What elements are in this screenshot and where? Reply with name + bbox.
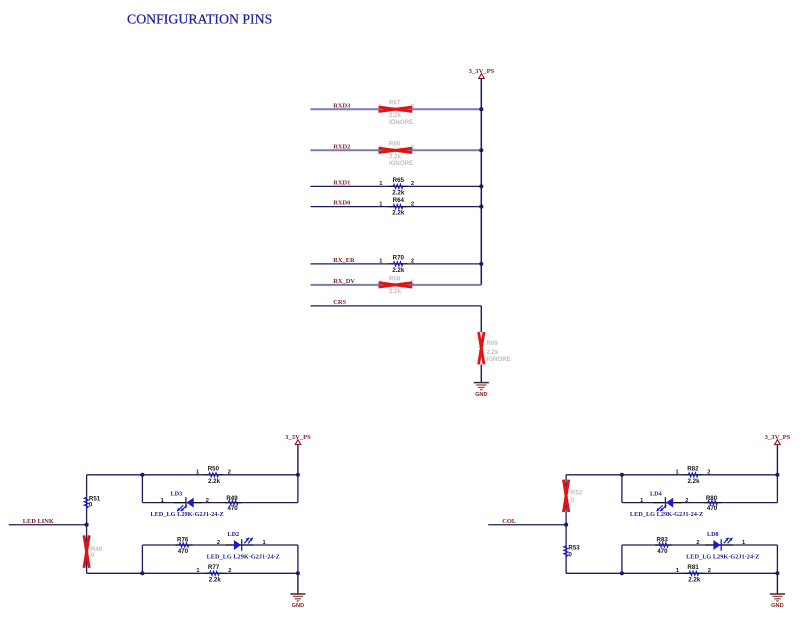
junction top rail / power (COL) [775, 473, 779, 477]
svg-text:1: 1 [379, 201, 382, 207]
wire bottom rail (COL) [566, 572, 777, 574]
svg-text:1: 1 [196, 469, 199, 475]
junction top rail / branch (COL) [620, 473, 624, 477]
R67 DNP X mark [379, 107, 413, 112]
wire net RX_DV [311, 284, 482, 286]
wire branch vertical lower-right (COL) [776, 545, 778, 573]
svg-text:1: 1 [640, 498, 643, 504]
wire power stem (LED LINK) [297, 445, 299, 475]
junction bottom rail / ground (COL) [775, 571, 779, 575]
svg-text:R76: R76 [177, 537, 189, 544]
svg-text:CRS: CRS [333, 299, 346, 306]
junction top rail / branch (LED LINK) [140, 473, 144, 477]
svg-text:R66: R66 [389, 141, 401, 148]
wire power stem (COL) [776, 445, 778, 475]
wire bottom rail (LED LINK) [87, 572, 298, 574]
svg-text:R80: R80 [706, 495, 718, 502]
svg-text:2.2k: 2.2k [487, 349, 500, 356]
svg-text:GND: GND [475, 392, 487, 398]
resistor R64 [379, 197, 414, 217]
svg-text:COL: COL [502, 518, 516, 525]
svg-text:2.2k: 2.2k [392, 210, 405, 217]
svg-text:IGNORE: IGNORE [487, 356, 511, 363]
svg-text:1: 1 [742, 540, 745, 546]
svg-text:1: 1 [676, 568, 679, 574]
wire branch vertical lower-left (LED LINK) [141, 545, 143, 573]
wire net CRS horizontal [311, 305, 482, 307]
svg-text:2: 2 [228, 469, 231, 475]
resistor R76 [176, 537, 193, 555]
resistor R65 [379, 177, 414, 197]
LED LD2 [234, 538, 253, 551]
wire LED2 branch (LED LINK) [142, 544, 298, 546]
wire left vertical upper (COL) [565, 475, 567, 525]
svg-text:IGNORE: IGNORE [389, 119, 413, 126]
svg-text:1: 1 [263, 540, 266, 546]
svg-text:R53: R53 [568, 545, 580, 552]
R66 DNP X mark [379, 148, 413, 153]
resistor R68 (DNP) [379, 275, 414, 295]
svg-text:2.2k: 2.2k [389, 288, 402, 295]
junction RXD0 / 3_3V_PS bus [479, 205, 483, 209]
svg-text:R52: R52 [571, 489, 583, 496]
svg-text:RXD0: RXD0 [333, 200, 350, 207]
svg-text:2: 2 [206, 498, 209, 504]
svg-text:LD2: LD2 [227, 531, 239, 538]
svg-text:R69: R69 [487, 340, 499, 347]
svg-text:2: 2 [696, 540, 699, 546]
junction LED LINK / divider [85, 523, 89, 527]
wire left vertical lower (LED LINK) [86, 525, 88, 574]
svg-text:R49: R49 [226, 495, 238, 502]
svg-text:2.2k: 2.2k [687, 478, 700, 485]
svg-text:R68: R68 [389, 275, 401, 282]
wire left vertical upper (LED LINK) [86, 475, 88, 525]
svg-text:GND: GND [292, 603, 304, 609]
junction bottom rail / branch (LED LINK) [140, 571, 144, 575]
resistor R69 (DNP) [479, 332, 511, 364]
resistor R67 (DNP) [379, 100, 414, 126]
svg-text:GND: GND [771, 603, 783, 609]
svg-text:RXD1: RXD1 [333, 180, 350, 187]
svg-text:R70: R70 [393, 254, 405, 261]
svg-text:R67: R67 [389, 100, 401, 107]
ground GND (COL) [770, 594, 785, 609]
svg-text:CONFIGURATION PINS: CONFIGURATION PINS [127, 12, 272, 27]
svg-text:0: 0 [568, 552, 572, 559]
svg-text:LED_LG L29K-G2J1-24-Z: LED_LG L29K-G2J1-24-Z [207, 553, 280, 560]
wire net RXD2 [311, 149, 482, 151]
wire net LED LINK [9, 524, 87, 526]
LED LD4 [657, 497, 674, 511]
svg-text:1: 1 [196, 568, 199, 574]
wire net RX_ER [311, 263, 482, 265]
svg-text:2.2k: 2.2k [392, 189, 405, 196]
wire branch vertical upper-left (LED LINK) [141, 475, 143, 503]
svg-text:470: 470 [227, 505, 238, 512]
resistor R82 [676, 465, 711, 485]
wire CRS to R69 [480, 306, 482, 332]
LED LD3 [177, 497, 194, 511]
wire 3_3V_PS vertical bus [480, 78, 482, 285]
wire net COL [488, 524, 566, 526]
junction COL / divider [564, 523, 568, 527]
svg-text:2.2k: 2.2k [392, 267, 405, 274]
svg-text:RX_ER: RX_ER [333, 257, 355, 264]
junction RXD2 / 3_3V_PS bus [479, 148, 483, 152]
svg-text:2.2k: 2.2k [208, 478, 221, 485]
svg-text:2: 2 [228, 568, 231, 574]
svg-text:470: 470 [657, 548, 668, 555]
wire LED2 branch (COL) [622, 544, 778, 546]
resistor R66 (DNP) [379, 141, 414, 167]
svg-text:R50: R50 [208, 465, 220, 472]
wire ground stem (COL) [776, 573, 778, 594]
R68 DNP X mark [379, 283, 413, 288]
svg-text:0: 0 [89, 502, 93, 509]
svg-text:LD4: LD4 [650, 491, 662, 498]
wire LED1 branch (COL) [622, 502, 778, 504]
svg-text:R82: R82 [687, 465, 699, 472]
junction RXD3 / 3_3V_PS bus [479, 107, 483, 111]
junction bottom rail / ground (LED LINK) [296, 571, 300, 575]
wire left vertical lower (COL) [565, 525, 567, 574]
svg-text:LED_LG L29K-G2J1-24-Z: LED_LG L29K-G2J1-24-Z [150, 511, 223, 518]
svg-text:IGNORE: IGNORE [389, 160, 413, 167]
R69 DNP X mark [479, 332, 484, 364]
svg-text:R81: R81 [687, 564, 699, 571]
resistor R46 (DNP) [84, 535, 103, 567]
resistor R53 [564, 545, 581, 559]
wire R69 to GND [480, 364, 482, 382]
svg-text:1: 1 [676, 469, 679, 475]
svg-text:LED_LG L29K-G2J1-24-Z: LED_LG L29K-G2J1-24-Z [630, 511, 703, 518]
svg-text:LD8: LD8 [707, 531, 719, 538]
junction bottom rail / branch (COL) [620, 571, 624, 575]
svg-text:0: 0 [91, 552, 95, 559]
junction top rail / power (LED LINK) [296, 473, 300, 477]
wire branch vertical lower-left (COL) [621, 545, 623, 573]
resistor R51 [84, 495, 101, 508]
resistor R70 [379, 254, 414, 274]
wire top rail (COL) [566, 474, 777, 476]
svg-text:1: 1 [379, 181, 382, 187]
resistor R77 [196, 564, 231, 584]
svg-text:2: 2 [411, 181, 414, 187]
svg-text:2.2k: 2.2k [209, 576, 222, 583]
wire net RXD1 [311, 185, 482, 187]
resistor R80 [704, 495, 721, 512]
resistor R49 [225, 495, 242, 512]
svg-text:2: 2 [708, 568, 711, 574]
svg-text:LD3: LD3 [171, 491, 183, 498]
LED LD8 [713, 538, 732, 551]
svg-text:LED_LG L29K-G2J1-24-Z: LED_LG L29K-G2J1-24-Z [686, 553, 759, 560]
svg-text:2: 2 [707, 469, 710, 475]
svg-text:0: 0 [571, 497, 575, 504]
svg-text:1: 1 [379, 259, 382, 265]
svg-text:R83: R83 [657, 537, 669, 544]
svg-text:R77: R77 [208, 564, 220, 571]
ground GND (LED LINK) [290, 594, 305, 609]
svg-text:470: 470 [707, 505, 718, 512]
resistor R81 [676, 564, 711, 584]
junction RXD1 / 3_3V_PS bus [479, 184, 483, 188]
svg-text:470: 470 [178, 548, 189, 555]
wire top rail (LED LINK) [87, 474, 298, 476]
wire branch vertical lower-right (LED LINK) [297, 545, 299, 573]
R46 DNP X mark [84, 535, 89, 567]
wire branch vertical upper-left (COL) [621, 475, 623, 503]
svg-text:R64: R64 [393, 197, 405, 204]
power 3_3V_PS (top) [469, 68, 495, 79]
ground GND (top) [474, 383, 489, 398]
power 3_3V_PS (COL) [765, 434, 791, 445]
wire net RXD0 [311, 206, 482, 208]
svg-text:2: 2 [217, 540, 220, 546]
wire LED1 branch (LED LINK) [142, 502, 298, 504]
svg-text:2: 2 [411, 259, 414, 265]
junction RX_ER / 3_3V_PS bus [479, 262, 483, 266]
resistor R50 [196, 465, 231, 485]
resistor R83 [655, 537, 672, 555]
wire branch vertical upper-right (LED LINK) [297, 475, 299, 503]
R52 DNP X mark [563, 480, 568, 512]
svg-text:R65: R65 [393, 177, 405, 184]
svg-text:2: 2 [685, 498, 688, 504]
wire branch vertical upper-right (COL) [776, 475, 778, 503]
wire net RXD3 [311, 108, 482, 110]
resistor R52 (DNP) [563, 480, 582, 512]
svg-text:LED LINK: LED LINK [23, 518, 54, 525]
power 3_3V_PS (LED LINK) [285, 434, 311, 445]
svg-text:2.2k: 2.2k [688, 576, 701, 583]
svg-text:1: 1 [161, 498, 164, 504]
svg-text:2: 2 [411, 201, 414, 207]
wire ground stem (LED LINK) [297, 573, 299, 594]
